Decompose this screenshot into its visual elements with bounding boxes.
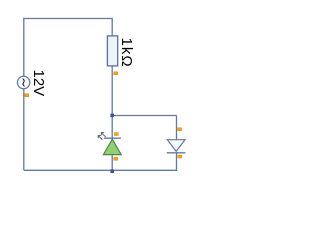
svg-text:12V: 12V bbox=[30, 70, 47, 97]
svg-text:1kΩ: 1kΩ bbox=[118, 38, 135, 68]
